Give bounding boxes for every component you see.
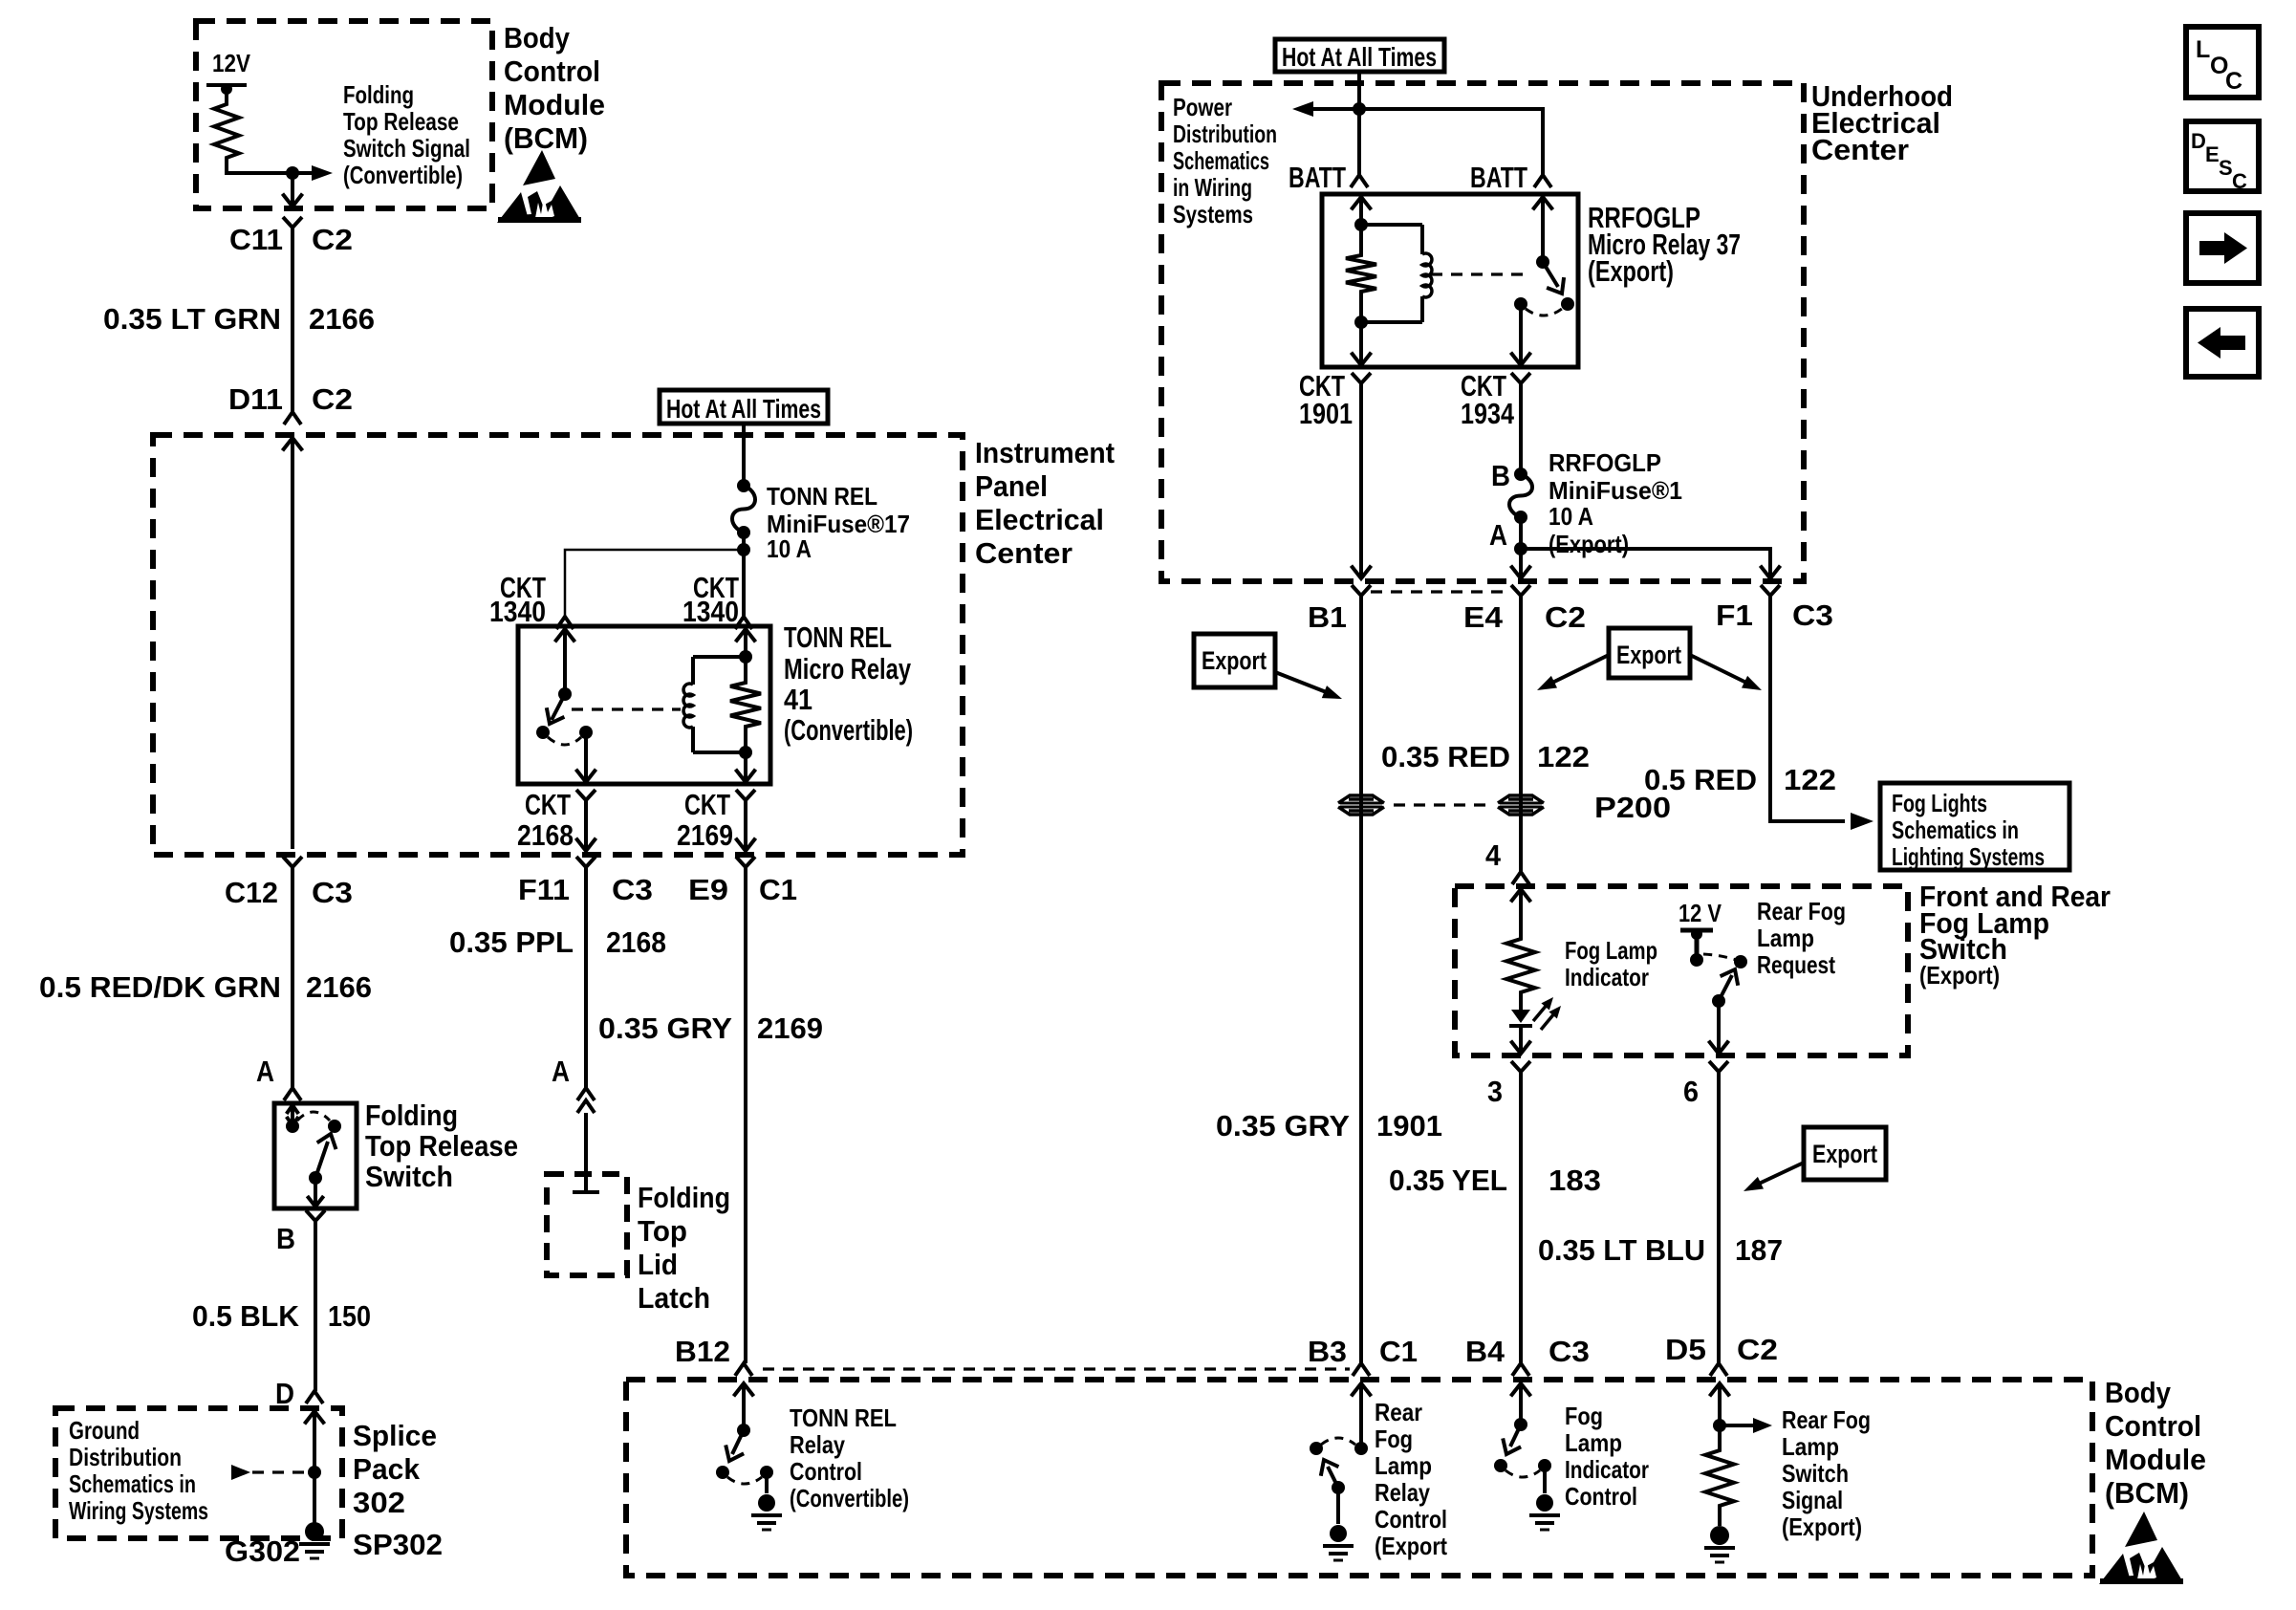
label: Body Control Module (BCM) bottom title: [2105, 1376, 2206, 1510]
svg-text:Top Release: Top Release: [343, 107, 459, 136]
svg-text:D: D: [275, 1377, 294, 1410]
relay 37 switch dashed throw arc: [1526, 309, 1562, 315]
svg-text:Power: Power: [1173, 93, 1232, 121]
signal arrow (rear fog switch signal): [1720, 1418, 1772, 1433]
svg-text:C2: C2: [1545, 600, 1586, 634]
svg-text:0.35 LT BLU: 0.35 LT BLU: [1538, 1233, 1705, 1267]
wire: LED to pin 3: [1511, 1026, 1531, 1054]
connector fork CKT 2168: [576, 790, 596, 807]
svg-text:10 A: 10 A: [767, 534, 812, 563]
svg-text:C3: C3: [1792, 598, 1833, 632]
svg-text:187: 187: [1735, 1233, 1783, 1267]
svg-text:(Export: (Export: [1375, 1532, 1447, 1560]
reference arrow to ground distribution: [231, 1465, 308, 1480]
arrow into BCM (rear fog relay control): [1352, 1383, 1372, 1448]
inline connector P200 (B1 wire): [1338, 795, 1384, 815]
wire: branch to BATT (right): [1359, 109, 1543, 175]
note box: Export (E4/F1): [1609, 628, 1690, 678]
switch dashed arc (fog lamp indicator): [1505, 1470, 1540, 1477]
power tag box: Hot At All Times (UH): [1275, 39, 1444, 72]
reference arrow to fog lights schematics: [1851, 813, 1874, 830]
wire: CKT 1934 to fuse: [1519, 390, 1523, 474]
svg-text:0.35 LT GRN: 0.35 LT GRN: [103, 302, 281, 336]
svg-text:(BCM): (BCM): [2105, 1476, 2189, 1510]
connector dashed link C1: [763, 1367, 1350, 1370]
relay 37 switch output wire: [1511, 304, 1531, 365]
svg-text:B12: B12: [675, 1335, 730, 1368]
component box: Folding Top Lid Latch: [547, 1174, 627, 1275]
svg-text:C3: C3: [1549, 1335, 1590, 1368]
label: Body Control Module (BCM) title: [504, 21, 605, 155]
switch pivot (rear fog request): [1712, 994, 1725, 1008]
svg-text:Latch: Latch: [638, 1281, 710, 1315]
switch pivot (TONN REL relay control): [737, 1424, 750, 1437]
relay 41 switch arm: [547, 694, 565, 724]
svg-text:Control: Control: [2105, 1409, 2201, 1443]
svg-text:Micro Relay: Micro Relay: [784, 652, 912, 685]
svg-text:Control: Control: [1565, 1482, 1637, 1511]
svg-text:C1: C1: [759, 873, 797, 906]
svg-text:Module: Module: [504, 88, 605, 121]
svg-text:B: B: [1491, 459, 1510, 492]
icon box: back arrow: [2186, 309, 2259, 377]
label: Fog Lamp Indicator Control: [1565, 1402, 1649, 1511]
node: fuse output junction (UH): [1514, 517, 1527, 555]
svg-text:C: C: [2232, 169, 2247, 193]
svg-text:B1: B1: [1308, 600, 1347, 634]
wire: pin 4 to indicator resistor: [1519, 889, 1523, 935]
label: CKT 1934: [1461, 369, 1515, 430]
relay 41 coil supply arrow: [736, 629, 756, 657]
relay 37 switch arm: [1543, 262, 1564, 294]
wire: CKT 2168 to IP box edge: [576, 807, 596, 851]
svg-text:12V: 12V: [212, 49, 251, 77]
wire: Hot At All Times to BATT (left): [1357, 72, 1361, 175]
svg-text:Splice: Splice: [353, 1419, 437, 1452]
svg-text:10 A: 10 A: [1549, 502, 1593, 531]
svg-text:Folding: Folding: [638, 1181, 730, 1214]
switch pivot dot (folding top): [309, 1171, 322, 1185]
svg-text:Switch: Switch: [365, 1160, 453, 1193]
label: Ground Distribution Schematics in Wiring Systems: [69, 1416, 208, 1525]
arrow into fog switch box (pin 4): [1511, 889, 1531, 902]
relay 41 actuation dashed link: [572, 707, 681, 710]
component box: Front and Rear Fog Lamp Switch: [1455, 886, 1908, 1055]
connector fork CKT 2169: [736, 790, 755, 807]
wire: F1 to fog lights schematics: [1770, 602, 1845, 821]
connector chevron D5: [1710, 1363, 1727, 1376]
ground (TONN REL relay control): [751, 1494, 782, 1530]
svg-text:D5: D5: [1665, 1333, 1706, 1366]
svg-text:(Export): (Export): [1782, 1512, 1862, 1541]
label: Fog Lamp Indicator: [1565, 936, 1657, 991]
connector chevron CKT 1340 left: [556, 617, 574, 629]
svg-text:C2: C2: [312, 223, 353, 256]
arrow into BCM (rear fog switch signal): [1710, 1383, 1730, 1446]
svg-text:Switch Signal: Switch Signal: [343, 134, 470, 163]
svg-text:(BCM): (BCM): [504, 121, 588, 155]
svg-text:B3: B3: [1308, 1335, 1347, 1368]
ESD sensitivity symbol (bottom BCM): [2099, 1512, 2183, 1584]
node: power distribution junction: [1353, 102, 1366, 116]
svg-text:C12: C12: [225, 876, 278, 909]
svg-text:F11: F11: [518, 873, 570, 906]
wire: 0.35 YEL 183: [1519, 1078, 1523, 1363]
switch dashed throw arc (folding top): [297, 1112, 330, 1120]
connector fork F11: [576, 857, 596, 874]
wire: CKT 2169 to IP box edge: [736, 807, 756, 851]
svg-text:12 V: 12 V: [1679, 899, 1722, 927]
svg-text:Hot At All Times: Hot At All Times: [1282, 42, 1437, 72]
label: CKT 1340 (left): [489, 571, 546, 628]
svg-text:1340: 1340: [682, 595, 739, 628]
connector fork pin 6: [1709, 1061, 1728, 1078]
relay 37 coil supply arrow: [1352, 197, 1372, 225]
svg-text:Relay: Relay: [1375, 1478, 1430, 1507]
relay U1: TONN REL Micro Relay 41 box: [518, 626, 770, 784]
relay 37 switch contact left: [1514, 297, 1527, 311]
svg-text:Fog: Fog: [1375, 1425, 1413, 1453]
label: TONN REL MiniFuse 17 10 A: [767, 482, 910, 563]
wire: 0.5 RED/DK GRN 2166: [291, 874, 294, 1088]
svg-text:CKT: CKT: [525, 788, 571, 821]
svg-text:S: S: [2219, 156, 2233, 180]
LED: fog lamp indicator: [1509, 996, 1532, 1026]
svg-text:1340: 1340: [489, 595, 546, 628]
svg-text:A: A: [256, 1055, 274, 1088]
connector fork B1: [1352, 585, 1371, 602]
svg-text:C2: C2: [312, 382, 353, 416]
svg-text:0.35 YEL: 0.35 YEL: [1389, 1164, 1507, 1197]
export arrow right (F1): [1690, 655, 1762, 690]
dashed link P200: [1394, 803, 1489, 806]
svg-text:Export: Export: [1812, 1140, 1877, 1168]
svg-text:(Export): (Export): [1588, 254, 1674, 288]
wire: 0.5 BLK 150: [314, 1228, 317, 1391]
wire: 0.35 PPL 2168: [584, 874, 588, 1088]
relay 37 coil ground side wire: [1352, 322, 1372, 365]
relay 41 switch dashed throw arc: [548, 737, 581, 745]
svg-text:1934: 1934: [1461, 397, 1515, 430]
svg-text:MiniFuse®1: MiniFuse®1: [1549, 476, 1682, 505]
LED emission arrows: [1533, 997, 1561, 1030]
svg-text:Center: Center: [1811, 133, 1909, 166]
arrow into BCM (TONN REL relay control): [734, 1383, 754, 1430]
connector fork E9: [736, 857, 755, 874]
svg-text:0.5 RED/DK GRN: 0.5 RED/DK GRN: [39, 970, 281, 1004]
label: TONN REL Micro Relay 41 (Convertible): [784, 620, 913, 747]
svg-text:Fog: Fog: [1565, 1402, 1603, 1430]
power symbol 12 V (fog switch): [1680, 928, 1713, 967]
connector chevron BATT right: [1534, 175, 1551, 187]
wire: 0.35 LT GRN 2166: [291, 234, 294, 412]
svg-text:Body: Body: [504, 21, 571, 54]
svg-text:Rear Fog: Rear Fog: [1782, 1405, 1871, 1434]
wire: into folding top lid latch: [584, 1113, 588, 1174]
svg-text:Signal: Signal: [1782, 1486, 1843, 1514]
wire: 0.35 LT BLU 187: [1717, 1078, 1721, 1363]
svg-text:Folding: Folding: [365, 1099, 458, 1132]
switch contact right (TONN REL): [760, 1466, 773, 1479]
wire: rear fog relay control to ground: [1336, 1488, 1340, 1524]
relay 37 actuation dashed link: [1431, 272, 1529, 275]
svg-text:Fog Lights: Fog Lights: [1892, 789, 1987, 817]
svg-text:(Convertible): (Convertible): [343, 161, 463, 189]
switch contact right dot: [328, 1120, 341, 1133]
svg-text:E: E: [2205, 142, 2220, 166]
label: CKT 2168: [517, 788, 574, 852]
label: CKT 1901: [1299, 369, 1353, 430]
svg-text:Indicator: Indicator: [1565, 1455, 1649, 1484]
svg-text:Distribution: Distribution: [1173, 120, 1277, 148]
switch terminal A stub: [287, 1105, 299, 1125]
label: CKT 1340 (right): [682, 571, 739, 628]
label: RRFOGLP MiniFuse 1 10 A (Export): [1549, 448, 1682, 558]
switch box: Folding Top Release Switch: [274, 1103, 357, 1208]
relay 41 coil ground side wire: [736, 752, 756, 782]
wire: 0.35 GRY 2169: [744, 874, 747, 1363]
ground G302: [299, 1522, 330, 1558]
svg-text:2166: 2166: [306, 970, 372, 1004]
switch contact right (fog lamp indicator): [1538, 1459, 1551, 1472]
svg-text:2169: 2169: [757, 1012, 823, 1045]
label: TONN REL Relay Control (Convertible): [790, 1403, 909, 1512]
switch dashed arc (rear fog relay): [1321, 1438, 1355, 1445]
note box: Export (pin 6): [1804, 1127, 1886, 1180]
switch contact left (TONN REL): [716, 1466, 729, 1479]
svg-text:Module: Module: [2105, 1443, 2206, 1476]
signal arrow: Folding Top Release Switch Signal: [292, 165, 333, 181]
svg-text:6: 6: [1683, 1075, 1699, 1108]
svg-text:Lid: Lid: [638, 1248, 678, 1281]
switch arm (folding top): [315, 1134, 336, 1178]
connector fork CKT 1901: [1352, 373, 1371, 390]
switch output stub: [307, 1178, 323, 1207]
svg-text:TONN REL: TONN REL: [784, 620, 892, 654]
svg-text:(Export): (Export): [1919, 961, 2000, 990]
svg-text:in Wiring: in Wiring: [1173, 173, 1252, 202]
svg-text:Systems: Systems: [1173, 200, 1253, 228]
relay 41 coil: [683, 657, 746, 752]
wire: CKT 1901 to UH box edge: [1352, 390, 1372, 578]
svg-text:2168: 2168: [517, 818, 574, 852]
svg-text:(Export): (Export): [1549, 530, 1629, 558]
wire: rear fog request to pin 6: [1709, 1001, 1729, 1054]
svg-text:CKT: CKT: [684, 788, 730, 821]
wire: Hot At All Times feed to fuse: [742, 424, 746, 486]
wire: resistor to ground (rear fog signal): [1718, 1511, 1722, 1526]
svg-text:TONN REL: TONN REL: [790, 1403, 897, 1432]
svg-text:Rear Fog: Rear Fog: [1757, 897, 1846, 925]
label: Folding Top Release Switch Signal (Convertible): [343, 80, 470, 189]
svg-text:TONN REL: TONN REL: [767, 482, 877, 511]
connector chevron CKT 1340 right: [735, 617, 752, 629]
relay 37 coil suppression resistor: [1346, 218, 1376, 329]
svg-text:122: 122: [1784, 763, 1836, 796]
svg-text:Lamp: Lamp: [1375, 1451, 1432, 1480]
relay 37 coil: [1361, 225, 1432, 322]
connector chevron BATT left: [1351, 175, 1368, 187]
svg-text:Control: Control: [1375, 1505, 1447, 1534]
connector chevron A: [284, 1088, 301, 1100]
svg-text:(Convertible): (Convertible): [790, 1484, 909, 1512]
svg-text:Fog Lamp: Fog Lamp: [1565, 936, 1657, 965]
svg-text:4: 4: [1485, 838, 1502, 872]
svg-text:Export: Export: [1616, 641, 1681, 669]
component box: Body Control Module (BCM) bottom: [626, 1380, 2092, 1576]
svg-text:C3: C3: [612, 873, 653, 906]
label: Rear Fog Lamp Request: [1757, 897, 1846, 979]
svg-text:A: A: [1489, 518, 1507, 552]
svg-text:BATT: BATT: [1470, 161, 1527, 194]
svg-text:150: 150: [328, 1299, 371, 1333]
node: rear fog switch signal junction: [1713, 1419, 1726, 1432]
wire: branch to relay pin CKT 1340 left: [565, 550, 744, 617]
switch contact left (rear fog relay): [1310, 1442, 1323, 1455]
svg-text:A: A: [552, 1055, 570, 1088]
switch wire-end dot (rear fog relay): [1354, 1442, 1368, 1455]
relay 37 switch input arrow: [1533, 197, 1553, 262]
svg-text:2169: 2169: [677, 818, 733, 852]
svg-text:Top: Top: [638, 1214, 687, 1248]
connector chevron D: [306, 1391, 323, 1403]
node: splice junction SP302: [308, 1466, 321, 1479]
wire: fuse to relay pin CKT 1340 right: [742, 550, 746, 617]
svg-text:Rear: Rear: [1375, 1398, 1422, 1426]
label: Folding Top Release Switch title: [365, 1099, 518, 1193]
svg-text:Body: Body: [2105, 1376, 2172, 1409]
svg-text:F1: F1: [1716, 598, 1753, 632]
arrow into splice pack box: [305, 1411, 325, 1424]
ground (fog lamp indicator control): [1529, 1494, 1560, 1530]
wire: resistor to junction: [227, 163, 292, 173]
svg-text:122: 122: [1537, 740, 1590, 773]
svg-text:Schematics in: Schematics in: [69, 1469, 196, 1498]
resistor: BCM pull-up (folding top release): [214, 99, 239, 163]
ground (rear fog switch signal): [1704, 1526, 1735, 1562]
relay U2: RRFOGLP Micro Relay 37 box: [1322, 194, 1578, 367]
wire: B1 to B3 (0.35 GRY 1901): [1359, 602, 1363, 1363]
svg-text:(Convertible): (Convertible): [784, 713, 913, 747]
svg-text:Control: Control: [504, 54, 600, 88]
arrow into BCM (fog lamp indicator control): [1511, 1383, 1531, 1425]
wire: branch to F1: [1521, 549, 1781, 578]
switch arm (TONN REL relay control): [726, 1430, 744, 1461]
connector fork E4: [1511, 585, 1530, 602]
connector fork F1: [1761, 585, 1780, 602]
component box: Underhood Electrical Center: [1161, 83, 1804, 581]
svg-text:Distribution: Distribution: [69, 1443, 182, 1471]
svg-text:Folding: Folding: [343, 80, 414, 109]
svg-text:1901: 1901: [1299, 397, 1353, 430]
export arrow (pin 6): [1744, 1163, 1804, 1191]
svg-text:Switch: Switch: [1782, 1459, 1849, 1488]
note box: Export (B1): [1194, 634, 1275, 687]
svg-text:1901: 1901: [1376, 1109, 1442, 1142]
svg-text:C: C: [2225, 68, 2242, 95]
svg-text:Relay: Relay: [790, 1430, 845, 1459]
svg-text:BATT: BATT: [1289, 161, 1346, 194]
relay 41 switch contact right: [579, 726, 593, 739]
svg-text:Indicator: Indicator: [1565, 963, 1649, 991]
power symbol 12V (BCM top): [206, 83, 247, 99]
svg-text:2168: 2168: [606, 925, 666, 959]
arrow into Instrument Panel box: [283, 438, 303, 450]
svg-text:D11: D11: [228, 382, 283, 416]
switch arm (rear fog request): [1719, 969, 1738, 1001]
svg-text:E4: E4: [1463, 600, 1504, 634]
connector chevron B4: [1512, 1363, 1529, 1376]
reference arrow to power distribution: [1292, 101, 1359, 117]
switch contact dot (rear fog request): [1734, 955, 1747, 968]
connector fork CKT 1934: [1511, 373, 1530, 390]
svg-text:Lighting Systems: Lighting Systems: [1892, 842, 2045, 871]
svg-text:L: L: [2196, 36, 2210, 63]
svg-text:Wiring Systems: Wiring Systems: [69, 1496, 208, 1525]
label: Rear Fog Lamp Relay Control (Export: [1375, 1398, 1447, 1560]
switch arm (rear fog relay): [1321, 1460, 1339, 1488]
switch pivot (fog lamp indicator): [1514, 1418, 1527, 1431]
power tag box: Hot At All Times (IP): [660, 390, 828, 424]
terminal stub inside lid latch: [573, 1174, 599, 1192]
svg-text:Top Release: Top Release: [365, 1129, 518, 1163]
svg-text:Panel: Panel: [975, 469, 1048, 503]
svg-text:Lamp: Lamp: [1757, 924, 1814, 952]
wire: fog lamp indicator control to ground: [1543, 1466, 1547, 1493]
svg-text:Export: Export: [1202, 646, 1267, 675]
node: junction at BCM output: [286, 166, 299, 180]
connector chevron B3: [1353, 1363, 1370, 1376]
connector fork C12: [283, 857, 302, 874]
relay 37 switch pivot: [1536, 255, 1549, 269]
wire: E4 to fog lamp switch: [1519, 602, 1523, 872]
wire: fuse junction to UH box edge: [1511, 549, 1531, 578]
relay 41 switch output wire: [576, 732, 596, 782]
svg-text:2166: 2166: [309, 302, 375, 336]
label: Underhood Electrical Center title: [1811, 79, 1953, 166]
svg-text:Schematics: Schematics: [1173, 146, 1269, 175]
wire: splice pack internal: [313, 1411, 316, 1526]
label: Rear Fog Lamp Switch Signal (Export): [1782, 1405, 1871, 1541]
label: Folding Top Lid Latch title: [638, 1181, 730, 1315]
switch contact A dot: [286, 1120, 299, 1133]
fuse: TONN REL MiniFuse 17 10A: [737, 479, 750, 492]
svg-text:Center: Center: [975, 536, 1072, 570]
icon box: LOC: [2186, 27, 2259, 98]
svg-text:41: 41: [784, 683, 812, 716]
wire: TONN REL control to ground: [765, 1472, 769, 1493]
svg-text:183: 183: [1549, 1164, 1601, 1197]
note box: Fog Lights Schematics in Lighting Systems: [1880, 783, 2069, 871]
connector chevron D11: [284, 412, 301, 424]
svg-text:RRFOGLP: RRFOGLP: [1549, 448, 1661, 477]
component box: Body Control Module (BCM) top: [196, 21, 492, 208]
svg-text:0.35 GRY: 0.35 GRY: [1216, 1109, 1350, 1142]
connector fork C11: [283, 217, 302, 234]
switch arm (fog lamp indicator): [1503, 1425, 1521, 1454]
wire: BCM pin C11 output: [291, 173, 294, 206]
switch pivot (rear fog relay): [1332, 1481, 1345, 1494]
switch contact left (fog lamp indicator): [1494, 1459, 1507, 1472]
ground (rear fog relay control): [1323, 1525, 1354, 1560]
connector fork B: [306, 1210, 325, 1228]
svg-text:0.5 RED: 0.5 RED: [1644, 763, 1757, 796]
svg-text:3: 3: [1487, 1075, 1503, 1108]
label: Instrument Panel Electrical Center title: [975, 436, 1115, 570]
relay 41 coil suppression resistor: [730, 650, 761, 759]
svg-text:Electrical: Electrical: [975, 503, 1104, 536]
connector chevron pin 4: [1512, 872, 1529, 884]
